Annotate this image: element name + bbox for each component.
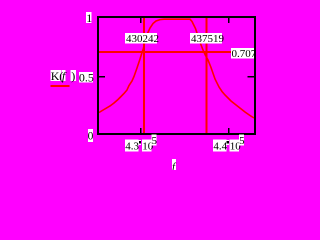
svg-text:4.3: 4.3 [125, 141, 139, 153]
svg-text:437519: 437519 [191, 33, 225, 45]
svg-text:5: 5 [152, 135, 158, 147]
svg-text:430242: 430242 [126, 33, 159, 45]
svg-text:1: 1 [86, 11, 92, 25]
svg-text:0.5: 0.5 [79, 70, 94, 84]
svg-text:5: 5 [239, 135, 245, 147]
svg-text:0.707: 0.707 [232, 48, 257, 60]
svg-text:0: 0 [88, 131, 94, 143]
svg-text:): ) [71, 69, 75, 83]
svg-text:4.4: 4.4 [213, 141, 227, 153]
